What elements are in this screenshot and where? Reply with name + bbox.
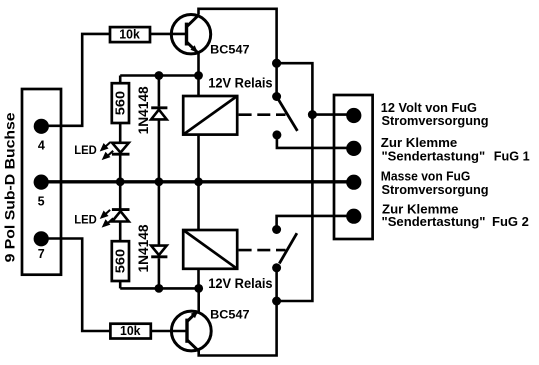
svg-text:LED: LED — [74, 143, 97, 157]
svg-text:"Sendertastung": "Sendertastung" — [382, 214, 486, 229]
svg-text:"Sendertastung": "Sendertastung" — [382, 148, 486, 163]
svg-text:5: 5 — [38, 195, 45, 209]
svg-text:1N4148: 1N4148 — [135, 86, 151, 134]
svg-text:10k: 10k — [119, 28, 140, 42]
svg-text:560: 560 — [114, 91, 128, 115]
svg-text:FuG 2: FuG 2 — [492, 214, 529, 229]
svg-text:7: 7 — [38, 247, 45, 261]
svg-text:BC547: BC547 — [210, 43, 250, 57]
svg-text:1N4148: 1N4148 — [135, 224, 151, 272]
svg-text:BC547: BC547 — [210, 308, 250, 322]
svg-text:Stromversorgung: Stromversorgung — [382, 113, 489, 128]
svg-text:Stromversorgung: Stromversorgung — [382, 182, 489, 197]
svg-text:12V Relais: 12V Relais — [208, 276, 272, 291]
svg-text:FuG 1: FuG 1 — [494, 148, 530, 163]
svg-text:560: 560 — [114, 249, 128, 273]
svg-text:12V Relais: 12V Relais — [208, 76, 272, 91]
svg-text:10k: 10k — [120, 324, 141, 338]
svg-text:4: 4 — [38, 138, 45, 152]
svg-text:LED: LED — [74, 212, 97, 226]
svg-text:9 Pol Sub-D Buchse: 9 Pol Sub-D Buchse — [2, 112, 18, 262]
